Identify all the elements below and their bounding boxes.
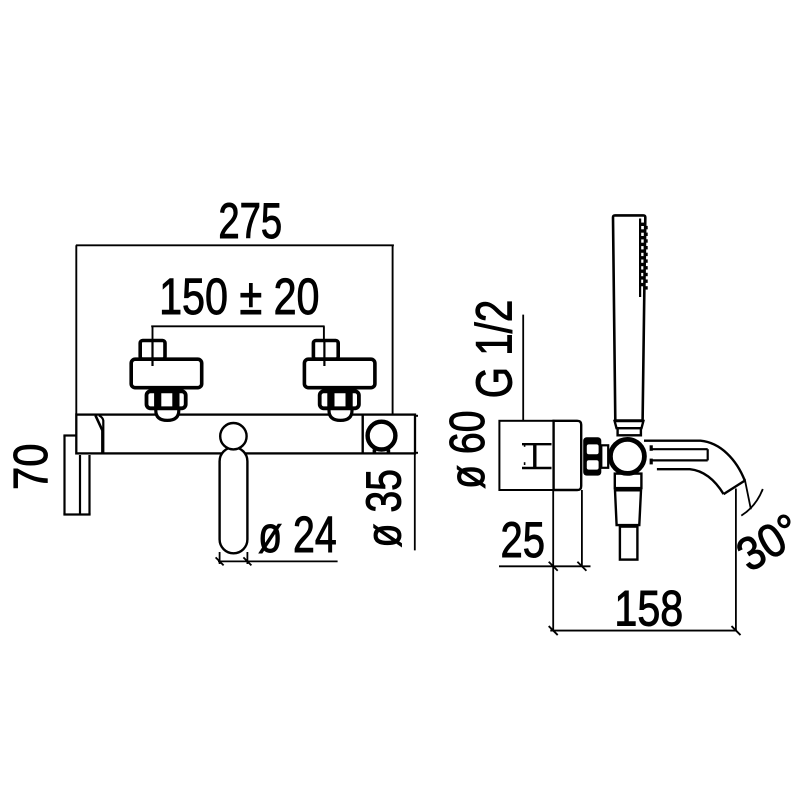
svg-text:70: 70 [3,444,57,490]
svg-text:150 ± 20: 150 ± 20 [159,268,319,325]
svg-text:275: 275 [218,194,282,249]
svg-text:ø 24: ø 24 [258,506,337,563]
svg-text:158: 158 [614,581,683,637]
svg-text:G 1/2: G 1/2 [465,300,523,399]
svg-text:ø 60: ø 60 [441,410,495,488]
svg-text:ø 35: ø 35 [358,469,412,547]
svg-text:25: 25 [501,512,545,568]
